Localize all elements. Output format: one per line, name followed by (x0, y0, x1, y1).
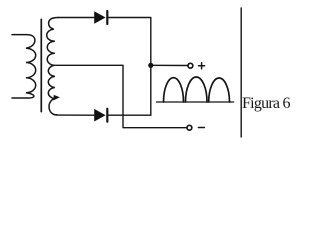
caption "Figura 6" (242, 95, 290, 113)
wire: D2 cathode to right rail (108, 114, 150, 116)
diode D2 (bottom) (94, 109, 105, 122)
wire: secondary bottom to diode D2 anode (57, 114, 95, 116)
+ sign (199, 63, 205, 69)
waveform hump 3 (209, 78, 230, 102)
waveform hump 1 (164, 78, 184, 102)
transformer T1 secondary winding (47, 18, 58, 115)
waveform hump 2 (186, 77, 208, 102)
+ output terminal (188, 63, 193, 68)
- output terminal (187, 125, 192, 130)
wire: center tap to - terminal (56, 65, 187, 127)
waveform baseline (157, 101, 234, 103)
figure border line (240, 8, 242, 137)
secondary winding direction arrow (54, 95, 60, 101)
wire: junction to + terminal (151, 64, 188, 66)
node: junction dot on + rail (148, 63, 153, 68)
wire: D1 cathode right and down right rail to D2 cathode (108, 18, 150, 116)
diode D1 (top) (94, 11, 105, 24)
- sign (198, 127, 204, 129)
transformer core (40, 19, 42, 111)
wire: secondary top to diode D1 anode (58, 17, 94, 19)
transformer T1 primary winding (12, 35, 36, 98)
